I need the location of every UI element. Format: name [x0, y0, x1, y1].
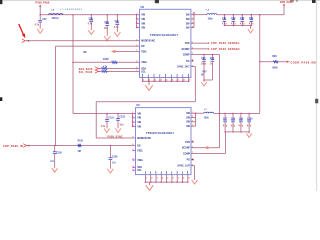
capacitor C106 column	[109, 146, 111, 158]
value C95 100p	[201, 63, 207, 65]
wire C88 top stub	[90, 15, 92, 20]
value C106 10n	[112, 163, 117, 165]
svg-text:8: 8	[183, 178, 184, 180]
wire P3V8 vertical into rail	[39, 5, 41, 15]
svg-text:SYNC_OUT: SYNC_OUT	[177, 166, 190, 168]
wire C90 top stub	[116, 15, 118, 23]
svg-text:C87: C87	[42, 19, 47, 21]
wire C94 bottom stub	[250, 21, 252, 25]
junction rail / vertical feed x=73	[72, 14, 74, 16]
svg-text:TPS82671GARZHRLY: TPS82671GARZHRLY	[146, 132, 175, 135]
wire CDP_PA08_IN y=145.5 segment 1	[27, 145, 78, 147]
capacitor C89	[105, 24, 109, 26]
junction rail / C88	[91, 14, 93, 16]
op IC U8 body	[140, 9, 191, 77]
wire PG stub IC1	[191, 60, 193, 62]
value C105 10n	[50, 161, 55, 163]
svg-text:9: 9	[189, 178, 190, 180]
net entry arrow VDD_PA08	[283, 4, 285, 6]
svg-text:VSEL: VSEL	[141, 62, 148, 64]
ground below C101	[106, 127, 108, 129]
IC U9 right pin numbers	[192, 112, 193, 114]
wire IC2 bottom pin stubs	[144, 175, 146, 183]
junction SDA wire start	[98, 68, 100, 70]
junction VSEL wire / x=73 rail	[72, 62, 74, 64]
IC U8 part number TPS82671GARZHRLY	[150, 34, 179, 37]
net entry CDP_PA08_IN	[23, 144, 26, 148]
ground below C87	[39, 27, 41, 29]
wire VIN pin stubs	[137, 18, 140, 20]
capacitor C99 output row 2	[240, 113, 242, 115]
net entry arrow CDP_PA08_SENSE2	[207, 48, 209, 50]
value C93 4.7u	[240, 22, 245, 25]
wire SW pin stubs IC1	[191, 14, 194, 16]
wire C100 bottom stub	[248, 122, 250, 132]
svg-text:C106: C106	[112, 156, 118, 158]
wire output rail y=14.7 L9 to corner	[217, 14, 284, 16]
net label P3V8_PA08	[36, 1, 50, 4]
junction COMP riser / caps bus	[225, 131, 227, 133]
junction SW bus top	[193, 14, 195, 16]
wire SDA stub IC2	[133, 166, 135, 168]
resistor R111 label 4.7k	[103, 65, 108, 68]
value R110 2M	[78, 151, 81, 153]
svg-text:CDP_PA08_SENSE2: CDP_PA08_SENSE2	[211, 48, 240, 51]
junction rail / C94	[251, 14, 253, 16]
svg-text:TPS82671GARZHRLY: TPS82671GARZHRLY	[150, 34, 179, 37]
wire output rail 2 y=113.4	[214, 112, 260, 114]
svg-text:FSEL: FSEL	[141, 51, 147, 53]
svg-text:SCONF: SCONF	[182, 148, 191, 150]
svg-text:L1-HEXM5R6NJ: L1-HEXM5R6NJ	[60, 9, 83, 11]
wire EN y=46.1 to IC1	[56, 45, 140, 47]
svg-text:C89: C89	[104, 22, 109, 24]
wire vertical feed x=73 rail to IC2 VIN	[72, 15, 74, 114]
svg-text:VIN: VIN	[137, 126, 141, 128]
IC U8 refdes label	[141, 5, 145, 9]
svg-text:C100: C100	[247, 119, 253, 121]
capacitor C101	[106, 114, 108, 120]
wire long vertical x=219.5 COMP to SCONF IC2	[219, 55, 221, 148]
svg-text:C97: C97	[223, 119, 228, 121]
svg-text:9: 9	[189, 79, 190, 81]
junction rail / C93	[242, 14, 244, 16]
capacitor C94	[250, 15, 252, 20]
svg-text:10n: 10n	[112, 163, 117, 165]
svg-text:PG: PG	[187, 160, 191, 162]
svg-text:SCONF: SCONF	[182, 49, 191, 51]
wire SCL stub IC2	[133, 169, 135, 171]
junction SW bus top IC2	[195, 112, 197, 114]
svg-text:100n: 100n	[204, 118, 210, 120]
value C91 4.7u	[222, 22, 227, 25]
junction rail / C87	[39, 14, 41, 16]
IC U9 bottom pin numbers	[146, 178, 147, 180]
wire VIN pin stubs IC2	[133, 117, 136, 119]
junction rail / C91	[224, 14, 226, 16]
value C100 4.7u	[247, 124, 252, 127]
value C92 4.7u	[231, 22, 236, 25]
wire C88 bottom stub	[90, 22, 92, 30]
svg-text:C91: C91	[222, 18, 227, 20]
wire IC1 ground stem	[148, 81, 150, 85]
net entry SDA	[95, 67, 98, 71]
wire sync drop x=96.2	[95, 102, 97, 138]
ground below C89	[106, 35, 108, 37]
value L7 100n	[204, 118, 210, 120]
capacitor C88	[89, 20, 93, 22]
resistor R97 label	[202, 71, 207, 73]
svg-text:C101: C101	[108, 118, 114, 120]
svg-text:C99: C99	[239, 119, 244, 121]
wire VSEL y=62.3 right segment	[117, 61, 139, 63]
wire C93 bottom stub	[241, 21, 243, 25]
resistor R110 label	[78, 141, 84, 143]
wire feedback vertical x=259.8	[259, 15, 261, 114]
svg-text:2M: 2M	[83, 52, 86, 54]
wire sync daisy-chain y=101.7	[96, 101, 195, 103]
ground IC2 power pad	[146, 185, 154, 190]
svg-text:C96: C96	[210, 58, 215, 60]
svg-text:100n: 100n	[208, 18, 214, 20]
svg-text:2M: 2M	[78, 151, 81, 153]
wire CDDR tap y=61.75 left segment	[260, 61, 274, 63]
ground below C106	[109, 168, 111, 170]
value C102 10n	[119, 125, 124, 127]
value L8 100nH	[52, 18, 59, 20]
junction rail / C90	[117, 14, 119, 16]
wire SYNC_OUT stub y=66.6	[191, 66, 195, 68]
inductor L8 refdes	[52, 10, 55, 12]
wire SCONF y=147.7 with open arrow	[191, 147, 220, 149]
wire MODE/SYNC y=40.7 to IC1	[25, 40, 139, 42]
junction COMP / C95	[203, 54, 205, 56]
junction SCL wire start	[98, 71, 100, 73]
IC U8 bottom pin names (PGND/AGND rotated)	[141, 74, 144, 77]
svg-text:VIN: VIN	[137, 118, 141, 120]
svg-text:10n: 10n	[50, 161, 55, 163]
junction CDP wire start	[28, 145, 30, 147]
capacitor C97 output row 2	[224, 113, 226, 115]
wire MODE/SYNC IC2 y=138	[96, 137, 135, 139]
junction MODE/SYNC wire start	[28, 40, 30, 42]
wire C87 bottom stub	[39, 22, 41, 29]
junction VIN bus IC2	[132, 113, 134, 115]
value C88 4.7u	[88, 23, 93, 26]
IC U8 left pin numbers	[136, 13, 137, 15]
wire input rail y=14.75	[40, 14, 139, 16]
top-left frame tick	[0, 0, 2, 4]
svg-text:C95: C95	[201, 58, 206, 60]
open arrow on SCONF wire	[206, 146, 211, 149]
svg-text:10n: 10n	[104, 28, 109, 30]
ground below sense network	[203, 80, 205, 82]
junction feed / C102	[117, 113, 119, 115]
wire C90 bottom stub	[116, 25, 118, 32]
svg-text:EN: EN	[137, 145, 141, 147]
wire IC1 bottom pin stubs	[142, 78, 144, 82]
wire C98 bottom stub	[232, 122, 234, 132]
svg-text:C88: C88	[89, 18, 94, 20]
wire C106 bottom stub	[109, 160, 111, 169]
top-right frame tick	[312, 0, 316, 3]
wire C92 bottom stub	[232, 21, 234, 25]
junction CDP / C106 column	[110, 145, 112, 147]
svg-text:P3V8_PA08: P3V8_PA08	[36, 1, 50, 4]
wire C105 bottom stub	[54, 154, 56, 168]
wire SYNC_OUT IC2 y=165.7	[191, 165, 195, 167]
left frame handle	[0, 97, 2, 101]
resistor R108 series element	[112, 61, 118, 63]
net entry SCL	[95, 70, 98, 74]
top frame line	[0, 0, 320, 2]
wire PG stub IC2	[191, 159, 193, 161]
VIN pin bus vertical x=136.5	[136, 15, 138, 28]
ground below C105	[54, 167, 56, 169]
resistor R112 series element on SCL	[102, 70, 108, 72]
svg-text:C98: C98	[231, 119, 236, 121]
net label CDP_PA08_SENSE1	[211, 42, 240, 45]
svg-text:PG: PG	[186, 61, 190, 63]
svg-text:SCL: SCL	[141, 71, 146, 73]
inductor L7 refdes	[204, 109, 207, 111]
svg-text:VOS: VOS	[185, 142, 190, 144]
junction CDP / EN riser x=55.6	[54, 145, 56, 147]
ground IC1 power pad	[145, 85, 153, 91]
net entry MODE/SYNC wire	[22, 39, 25, 43]
svg-text:3: 3	[157, 178, 158, 180]
IC U9 right pin names	[186, 113, 191, 115]
wire C89 top stub	[106, 15, 108, 24]
svg-text:2: 2	[151, 178, 152, 180]
wire IC2 ground stem	[149, 182, 151, 185]
value C97 4.7u	[223, 124, 228, 127]
wire C99 bottom stub	[240, 122, 242, 132]
IC U8 right pin names	[186, 15, 191, 17]
value C94 4.7u	[249, 22, 254, 25]
resistor R111 series element on SDA	[102, 68, 108, 70]
value L9 100n	[208, 18, 214, 20]
wire VDD_PA08 riser x=284	[283, 4, 285, 15]
wire VOS sense y=43.1	[191, 42, 209, 44]
net entry arrow CDDR_PA08_MO	[287, 61, 290, 63]
IC U9 bottom pin names (PGND/AGND rotated)	[144, 171, 147, 174]
svg-text:CDP_PA08_SENSE1: CDP_PA08_SENSE1	[211, 42, 240, 45]
resistor R106 label	[83, 52, 86, 54]
svg-text:VIN: VIN	[141, 28, 145, 30]
net label SDA_PA08	[79, 68, 93, 71]
net label VDD_PA08	[280, 1, 294, 4]
capacitor C100 output row 2	[248, 113, 250, 115]
wire C95 lower / R97 column	[203, 61, 205, 80]
junction rail / feedback vertical	[259, 14, 261, 16]
wire C102 bottom stub	[117, 120, 119, 128]
wire C91 bottom stub	[223, 21, 225, 25]
wire ground stem x=250.6	[250, 26, 252, 29]
capacitor C91	[223, 15, 225, 20]
svg-text:VSEL: VSEL	[137, 160, 144, 162]
right frame handle	[315, 99, 318, 104]
sheet background	[0, 0, 320, 191]
ground below C90	[116, 31, 118, 33]
wire C97 bottom stub	[224, 122, 226, 132]
IC U8 bottom pin numbers	[143, 79, 144, 81]
net label CDDR_PA08_MO	[290, 61, 316, 64]
svg-text:10n: 10n	[119, 125, 124, 127]
wire FSEL y=51.5 to IC1	[115, 51, 139, 53]
VIN pin bus vertical IC2 x=132.5	[132, 114, 134, 127]
capacitor C93	[241, 15, 243, 20]
junction rail / C89	[106, 14, 108, 16]
IC U8 left pin names	[141, 15, 145, 17]
wire IC2 input feed y=113.5	[73, 113, 136, 115]
svg-text:VIN: VIN	[137, 122, 141, 124]
open arrow FSEL	[111, 50, 116, 53]
junction VIN bus / rail	[136, 14, 138, 16]
svg-text:C92: C92	[231, 18, 236, 20]
junction COMP / C96	[212, 54, 214, 56]
svg-text:VOS: VOS	[185, 43, 190, 45]
IC U8 right pin numbers	[192, 13, 193, 15]
net label SCL_PA08	[79, 71, 93, 74]
wire SW pin stubs IC2	[191, 112, 196, 114]
resistor R108 label	[103, 59, 109, 61]
svg-text:R97: R97	[202, 71, 207, 73]
svg-text:100nH: 100nH	[52, 18, 59, 20]
svg-text:CDP_PA08_IN: CDP_PA08_IN	[3, 145, 23, 148]
net label CDP_PA08_SENSE2	[211, 48, 240, 51]
wire SW to L9	[194, 14, 207, 16]
net label PA08_SYNC	[108, 136, 124, 139]
wire C87 top stub	[39, 15, 41, 21]
svg-text:SYNC_OUT: SYNC_OUT	[177, 67, 190, 69]
wire COMP IC2 y=153.4	[191, 152, 225, 154]
inductor L9 coil	[207, 14, 217, 15]
top frame dashes	[290, 0, 294, 2]
wire SYNC_OUT vertical x=195.3	[194, 67, 196, 102]
capacitor C102	[117, 114, 119, 119]
value C89 10n	[104, 28, 109, 30]
net entry arrow P3V8_PA08	[39, 5, 41, 7]
capacitor C96	[211, 55, 213, 60]
wire EN corner vertical x=55.6 (to CDP_PA08_IN)	[55, 46, 57, 145]
junction feed / C101	[106, 113, 108, 115]
svg-text:MODE/SYNC: MODE/SYNC	[141, 41, 155, 43]
wire FSEL stub IC2	[133, 149, 135, 151]
value R98 680k	[272, 67, 278, 69]
svg-text:CDDR_PA08_MO: CDDR_PA08_MO	[290, 61, 316, 64]
svg-text:R98: R98	[272, 56, 277, 58]
IC U9 part number TPS82671GARZHRLY	[146, 132, 175, 135]
wire SCL y=71.4	[99, 70, 102, 72]
value R97 1K	[201, 74, 204, 76]
wire SW bus vertical IC2 x=195.5	[195, 113, 197, 126]
wire IC1 ground bus y=81.2	[143, 80, 189, 82]
wire IC2 ground bus y=182.1	[145, 181, 187, 183]
svg-text:C90: C90	[115, 21, 120, 23]
wire COMP y=54.5	[191, 54, 220, 56]
svg-text:VDD_PA08: VDD_PA08	[280, 1, 294, 4]
open arrow end of SYNC_OUT IC2	[192, 180, 198, 184]
svg-text:FSEL: FSEL	[137, 150, 143, 152]
top-middle frame tick	[155, 0, 159, 3]
svg-text:7: 7	[178, 178, 179, 180]
right frame line	[316, 0, 318, 191]
capacitor C92	[232, 15, 234, 20]
wire C89 bottom stub	[106, 25, 108, 36]
net entry arrow CDP_PA08_SENSE1	[207, 42, 209, 44]
svg-text:C93: C93	[240, 18, 245, 20]
value C96 1n	[210, 63, 213, 65]
capacitor C98 output row 2	[232, 113, 234, 115]
svg-text:MODE/SYNC: MODE/SYNC	[137, 138, 151, 140]
wire SDA y=68.5	[99, 68, 102, 70]
wire VOS stub IC2	[191, 141, 193, 143]
junction rail / C92	[233, 14, 235, 16]
svg-text:COMP: COMP	[183, 54, 190, 56]
wire C101 bottom stub	[106, 121, 108, 128]
wire SW to L7	[196, 112, 204, 114]
inductor L9 refdes	[207, 9, 210, 11]
resistor R110 series element	[78, 145, 81, 147]
svg-text:680k: 680k	[272, 67, 278, 69]
svg-text:VIN: VIN	[141, 23, 145, 25]
value C90 4.7u	[114, 26, 119, 29]
inductor L8 part number	[60, 9, 83, 11]
junction feedback / CDDR tap	[259, 61, 261, 63]
svg-text:1: 1	[146, 178, 147, 180]
IC U9 left pin names	[137, 113, 141, 115]
ground below C88	[90, 29, 92, 31]
IC U9 refdes label	[136, 103, 140, 107]
ground below output caps row 2	[248, 132, 250, 134]
svg-text:5: 5	[167, 178, 168, 180]
wire output caps ground bus y=25.5	[224, 25, 251, 27]
svg-text:SCL: SCL	[137, 170, 142, 172]
resistor R98 label	[272, 56, 277, 58]
wire COMP riser x=225.4	[224, 132, 226, 154]
ground below C102	[117, 127, 119, 129]
value C99 4.7u	[239, 124, 244, 127]
wire output caps row2 ground bus y=131.9	[225, 131, 249, 133]
capacitor C90	[115, 23, 119, 25]
wire CDDR tap right segment	[278, 61, 287, 63]
ground below output caps row	[250, 28, 252, 30]
value C87 4.7u	[35, 23, 40, 26]
svg-text:EN: EN	[141, 46, 145, 48]
junction sense box bottom	[203, 79, 205, 81]
value C98 4.7u	[231, 124, 236, 127]
svg-text:R108: R108	[103, 59, 109, 61]
net label CDP_PA08_IN	[3, 145, 23, 148]
wire SCONF sense y=48.9	[191, 48, 209, 50]
svg-text:COMP: COMP	[183, 153, 190, 155]
wire SW bus vertical x=194	[193, 15, 195, 28]
svg-text:1K: 1K	[201, 74, 204, 76]
capacitor C105 column	[54, 146, 56, 152]
svg-text:VIN: VIN	[141, 19, 145, 21]
wire VSEL stub IC2	[133, 159, 135, 161]
svg-text:VIN: VIN	[137, 113, 141, 115]
cursor arrow	[19, 24, 24, 34]
wire VSEL y=62.3 left segment	[73, 61, 112, 63]
capacitor C87	[38, 20, 42, 22]
inductor L7 coil	[204, 112, 214, 113]
wire ground stem row2	[248, 132, 250, 133]
svg-text:C102: C102	[119, 117, 125, 119]
wire SYNC_OUT drop x=194.6	[194, 166, 196, 180]
wire CDP_PA08_IN y=145.5 segment 2	[81, 145, 135, 147]
